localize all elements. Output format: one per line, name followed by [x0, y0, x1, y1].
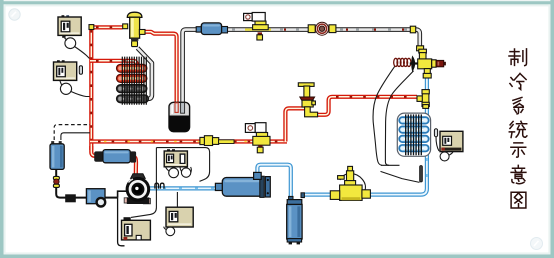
hand valve HV1 (bypass) — [298, 83, 317, 117]
wire: oil reservoir solid tap — [61, 133, 90, 140]
wire: evaporator internal right drop (blue) — [425, 107, 429, 155]
inline yellow fitting on bypass (left of solenoid) — [200, 136, 234, 146]
wire: separator to receiver (red) — [143, 32, 177, 104]
wire: capillary vertical left of dual pressure switch — [155, 148, 157, 191]
wire: suction drop from evaporator and bottom run (blue) — [368, 155, 427, 195]
wire: liquid line drier to sight glass (gray) — [226, 27, 310, 32]
receiver R1 — [169, 102, 190, 131]
small oil valve below reservoir — [53, 176, 59, 187]
TXV sensing bulb on suction pipe — [420, 166, 423, 183]
wire: oil line junction to compressor (black) — [118, 191, 127, 197]
wire: discharge top branch to oil separator (red) — [90, 25, 123, 29]
pressure switch box P1 (top left) — [58, 15, 81, 38]
condenser coil rows — [121, 68, 145, 99]
solenoid valve SV2 (bypass line) — [245, 123, 270, 153]
yellow elbow fitting before TXV drop — [410, 26, 415, 33]
title char 冷 — [510, 74, 526, 90]
filter drier FD1 — [196, 23, 227, 35]
inline black component on oil line — [65, 194, 76, 202]
wire: suction EPR to accumulator (blue) — [302, 193, 333, 197]
wire: hot-gas bypass line lower horizontal (red) — [90, 139, 287, 143]
oil pump (blue box) — [86, 189, 105, 207]
title char 系 — [513, 97, 523, 114]
TXV capillary A (equalizer) — [373, 67, 395, 166]
capillary connector bar — [381, 164, 400, 166]
thermostat T1 capillary — [436, 137, 439, 151]
bottom box A (oil pressure switch) — [122, 217, 151, 240]
wire: oil pressure line down to safety box (black) — [118, 198, 125, 246]
title char 图 — [511, 192, 526, 208]
dual pressure switch box D1 — [164, 149, 187, 167]
capillary diagonal to bulb — [381, 171, 420, 182]
TXV bottom port — [424, 69, 430, 74]
suction service valves (two stubs) — [155, 183, 159, 188]
pressure switch box P2 (left) — [54, 60, 77, 80]
bottom box B (thermostat) — [166, 207, 193, 227]
wire: branch to condenser coil (red) — [90, 61, 137, 67]
wire: capillary from suction service to bottom box A — [131, 191, 156, 217]
wire: condenser outlet riser to separator (gray) — [138, 48, 152, 99]
TXV right port — [432, 60, 436, 67]
wire: bypass riser and jog to hand valve (red) — [285, 108, 305, 141]
condenser fins — [118, 66, 145, 101]
TXV capillary B (bulb line) — [385, 71, 413, 166]
wire: oil reservoir dashed tap — [54, 125, 90, 140]
wire: receiver dip tube riser (gray) — [183, 30, 198, 104]
suction filter SF1 — [215, 172, 270, 197]
evaporator top fitting — [423, 105, 429, 109]
evaporator EV1 — [397, 113, 430, 156]
wire: bypass from hand valve to TXV junction (red) — [314, 97, 417, 115]
wire: muffler to compressor inlet (red) — [129, 156, 136, 175]
EPR valve V2 (on suction line) — [330, 166, 370, 200]
wire: discharge manifold vertical (red) — [89, 26, 93, 150]
title char 示 — [511, 143, 526, 157]
yellow corner fitting at manifold top — [89, 25, 94, 30]
TXV diaphragm — [411, 55, 415, 72]
accumulator AC1 (vertical cylinder) — [287, 193, 305, 245]
thermostat box T1 (right) — [440, 131, 463, 151]
wire: accumulator loop to suction filter (blue) — [257, 165, 290, 197]
dual pressure switch capillary loops — [169, 168, 179, 178]
TXV U1 thermostatic expansion valve — [394, 49, 446, 78]
title char 统 — [509, 121, 527, 137]
wire: suction filter to compressor (blue) — [148, 186, 217, 190]
wire: liquid line sight glass to right elbow (gray) — [334, 27, 412, 32]
sight glass SG1 — [308, 22, 336, 35]
solenoid valve SV1 (liquid line) — [244, 13, 269, 41]
wire: TXV outlet down through junction to evaporator (blue) — [425, 77, 429, 107]
discharge muffler M1 — [94, 150, 136, 163]
wire: manifold elbow into muffler (red) — [91, 146, 99, 156]
TXV body — [418, 59, 432, 69]
sensor capsule on manifold — [79, 66, 82, 74]
wire: capillary loop around dual pressure switch — [156, 148, 209, 182]
TXV top port — [419, 49, 427, 53]
capillary loop of P2 — [60, 83, 71, 94]
oil reservoir cylinder OR1 — [50, 141, 64, 169]
title char 制 — [509, 49, 527, 66]
wire: oil line reservoir to pump to compressor (black) — [55, 169, 57, 176]
box B capillary loop — [166, 227, 175, 236]
compressor CP1 — [124, 174, 150, 204]
TXV spring — [394, 58, 411, 66]
wire: capillary bottom box B to suction line — [176, 192, 178, 207]
capillary loop of P1 — [65, 38, 76, 49]
thermostat T1 sensing bulb — [434, 129, 437, 137]
wire: elbow down to TXV (gray) — [412, 30, 420, 50]
wire: liquid line yellow segment under solenoid — [245, 28, 271, 30]
title char 意 — [511, 165, 526, 183]
junction T fitting (bypass joins liquid feed) — [417, 90, 429, 107]
oil separator OS1 — [123, 12, 145, 46]
